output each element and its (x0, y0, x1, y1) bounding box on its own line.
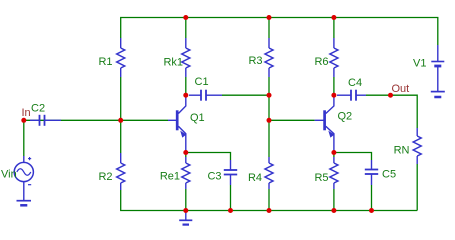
wire C4 right lead to Out and RN (366, 95, 417, 128)
svg-text:In: In (22, 107, 31, 119)
resistor R4 (265, 157, 273, 189)
junction C4 left node (331, 93, 336, 98)
wire Q1 emitter node to Re1 (185, 153, 187, 158)
svg-text:C5: C5 (382, 169, 396, 181)
junction top rail at Rk1 (183, 15, 188, 20)
wire Q2 emitter node to C5 top (334, 153, 372, 161)
wire In node to Vin source (23, 120, 25, 156)
wire base node to R4 top (268, 120, 270, 157)
svg-text:C2: C2 (31, 103, 45, 115)
junction Q1 emitter node (183, 150, 188, 155)
resistor Re1 (182, 157, 190, 189)
wire In node to Q1 base (24, 119, 168, 121)
wire top supply rail (121, 18, 438, 46)
svg-text:C1: C1 (195, 76, 209, 88)
junction ground rail at C3 (228, 208, 233, 213)
wire top rail to R3 (268, 18, 270, 39)
wire Q2 emitter node to R5 (333, 153, 335, 158)
resistor RN (413, 128, 421, 164)
ground below Vin (17, 201, 32, 206)
ground below Re1 (179, 211, 192, 225)
svg-text:C3: C3 (207, 171, 221, 183)
wire C5 bottom to ground rail (371, 185, 373, 211)
transistor Q2 (315, 95, 335, 152)
resistor R1 (117, 38, 125, 77)
svg-text:V1: V1 (413, 58, 426, 70)
junction R1 R2 base node (118, 118, 123, 123)
junction C1 left node (183, 93, 188, 98)
junction C1 right node (267, 93, 272, 98)
wire RN bottom to ground rail (416, 164, 418, 211)
wire base node to R2 top (120, 120, 122, 153)
capacitor C3 (224, 160, 237, 185)
junction Out node (388, 93, 393, 98)
svg-text:RN: RN (394, 145, 410, 157)
battery V1 (431, 45, 444, 92)
ground below V1 (431, 92, 445, 97)
svg-text:Out: Out (392, 83, 410, 95)
wire R6 bottom to C4 node (333, 77, 335, 95)
wire Q1 emitter node to C3 top (186, 153, 231, 161)
svg-text:Vin: Vin (1, 169, 17, 181)
svg-text:R6: R6 (314, 56, 328, 68)
wire R2 bottom to ground rail (121, 190, 186, 211)
resistor R3 (265, 38, 273, 77)
wire Rk1 bottom to C1 node (185, 77, 187, 95)
junction Q2 base node (267, 118, 272, 123)
capacitor C1 (189, 90, 222, 101)
wire C1 right lead to R3 column (222, 94, 269, 96)
wire top rail to R6 (333, 18, 335, 39)
wire R3 bottom through C1 node to base node (268, 77, 270, 120)
svg-text:Q2: Q2 (338, 111, 353, 123)
voltage source Vin (14, 156, 33, 201)
junction In node (21, 118, 26, 123)
svg-text:C4: C4 (348, 77, 362, 89)
junction top rail at R6 (331, 15, 336, 20)
svg-text:R3: R3 (248, 55, 262, 67)
junction ground rail at R4 (267, 208, 272, 213)
wire bottom ground rail (186, 210, 417, 212)
wire R1 bottom to base node (120, 77, 122, 120)
junction top rail at R3 (267, 15, 272, 20)
capacitor C5 (365, 160, 378, 185)
junction Q2 emitter node (331, 150, 336, 155)
wire C3 bottom to ground rail (230, 185, 232, 211)
wire top rail to Rk1 (185, 18, 187, 39)
svg-text:R2: R2 (98, 171, 112, 183)
svg-text:R1: R1 (98, 56, 112, 68)
svg-text:R5: R5 (314, 172, 328, 184)
wire R4 bottom to ground rail (268, 189, 270, 211)
junction ground rail at R5 (331, 208, 336, 213)
resistor R2 (117, 153, 125, 190)
wire base node to Q2 base (269, 119, 315, 121)
junction ground rail at C5 (369, 208, 374, 213)
resistor R5 (330, 157, 338, 189)
svg-text:Re1: Re1 (160, 171, 180, 183)
capacitor C2 (30, 115, 61, 126)
svg-text:R4: R4 (248, 172, 262, 184)
wire Re1 bottom to ground rail (185, 189, 187, 211)
resistor Rk1 (182, 38, 190, 77)
svg-text:Q1: Q1 (190, 112, 205, 124)
svg-text:Rk1: Rk1 (163, 57, 183, 69)
transistor Q1 (168, 95, 186, 152)
junction ground rail at Re1 (183, 208, 188, 213)
capacitor C4 (337, 90, 366, 101)
resistor R6 (330, 38, 338, 77)
wire R5 bottom to ground rail (333, 189, 335, 211)
